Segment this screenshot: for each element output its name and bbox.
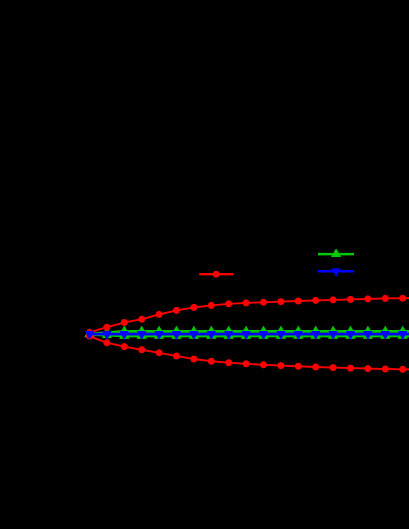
- blue upper branch markers: [85, 331, 407, 340]
- legend green entry: [318, 248, 354, 257]
- blue series lower branch line: [90, 333, 409, 335]
- blue lower branch markers: [85, 331, 407, 340]
- red series upper branch line: [90, 298, 409, 332]
- green lower branch markers: [84, 329, 408, 339]
- legend blue entry: [318, 268, 354, 277]
- red lower branch markers: [86, 333, 406, 373]
- red series lower branch line: [90, 336, 409, 369]
- blue series upper branch line: [90, 333, 409, 335]
- legend red entry: [199, 271, 233, 278]
- green upper branch markers: [84, 326, 408, 337]
- green series upper branch line: [90, 331, 409, 334]
- green series lower branch line: [90, 335, 409, 337]
- red upper branch markers: [86, 295, 406, 336]
